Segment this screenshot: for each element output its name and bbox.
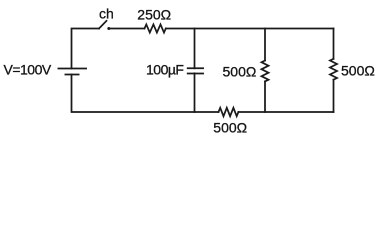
resistor R4 500 ohm bottom: [219, 108, 239, 116]
capacitor C1 100uF: [188, 29, 203, 113]
svg-text:500Ω: 500Ω: [213, 119, 247, 135]
wire switch to resistor R1: [109, 28, 145, 30]
voltage source V=100V: [58, 69, 86, 75]
wire top-left from source to switch: [72, 29, 100, 69]
svg-text:500Ω: 500Ω: [223, 63, 257, 79]
svg-text:100µF: 100µF: [146, 62, 183, 78]
switch ch: [99, 21, 110, 30]
wire top from R1 to top-right corner: [166, 28, 334, 30]
wire bottom from R4 to bottom-right corner: [238, 111, 333, 113]
svg-text:ch: ch: [99, 6, 114, 22]
svg-text:500Ω: 500Ω: [341, 62, 375, 78]
resistor R3 500 ohm right branch: [330, 29, 337, 113]
wire source bottom to bottom-left corner: [72, 75, 219, 113]
svg-text:V=100V: V=100V: [4, 62, 52, 78]
resistor R2 500 ohm middle branch: [262, 29, 269, 113]
svg-text:250Ω: 250Ω: [137, 6, 171, 22]
resistor R1 250 ohm: [145, 24, 166, 32]
